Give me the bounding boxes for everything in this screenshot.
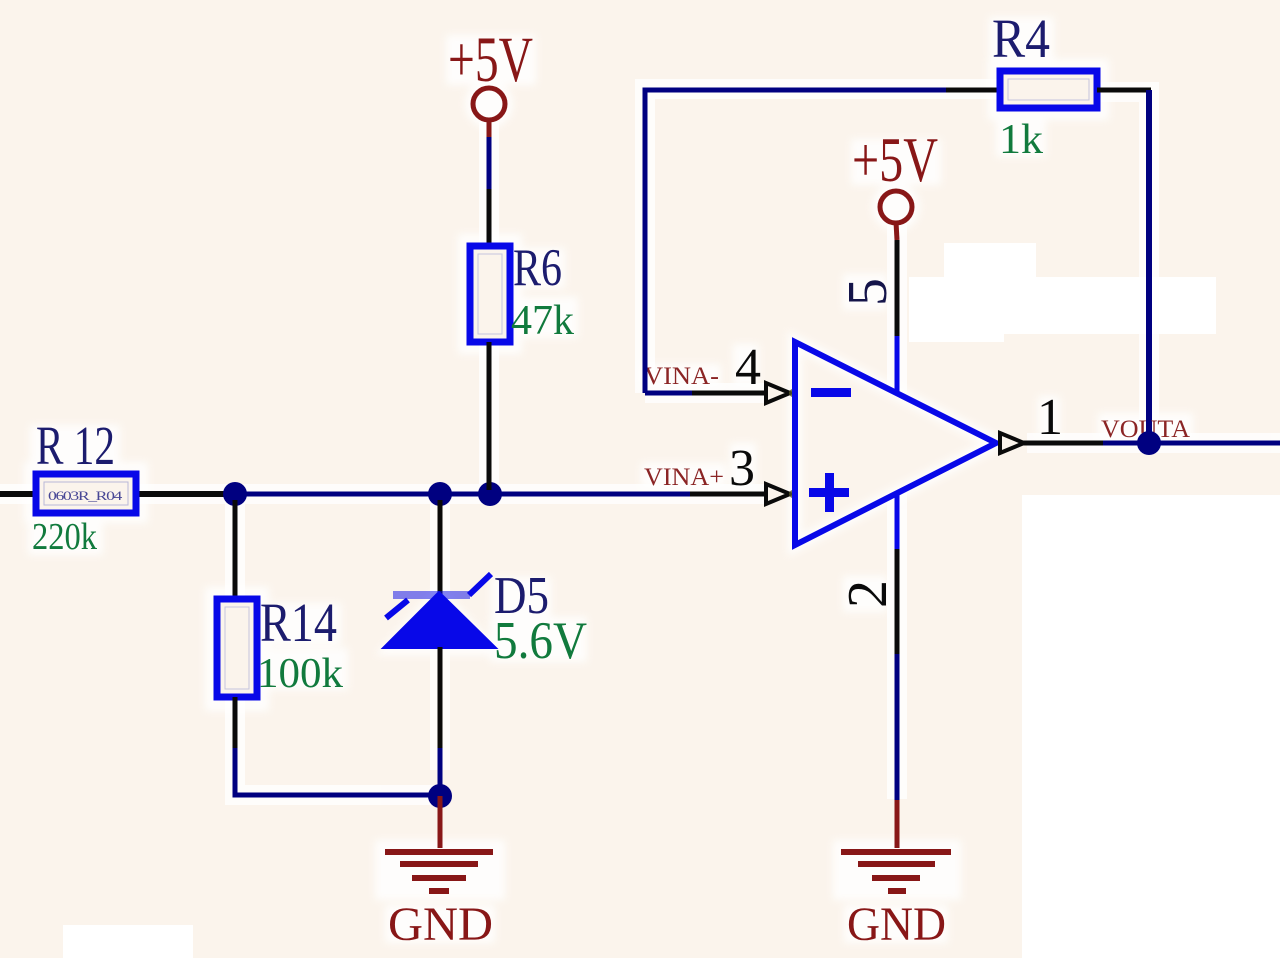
svg-text:GND: GND <box>847 898 946 951</box>
svg-text:R 12: R 12 <box>36 415 115 476</box>
pin 4 input arrowhead <box>766 383 790 403</box>
wire: down to R14 <box>233 500 238 597</box>
svg-text:47k: 47k <box>511 298 574 344</box>
wire: +5V to R6 (navy) <box>487 137 492 189</box>
ground symbol right <box>841 852 951 891</box>
white-out patch bottom left <box>63 925 193 958</box>
resistor R12 <box>36 474 136 513</box>
svg-text:VINA+: VINA+ <box>644 464 724 491</box>
pin 5 power line: black wire from +5V, blue inside symbol <box>895 240 900 336</box>
power stub (right) <box>896 222 897 240</box>
ground stub right <box>895 800 900 848</box>
wire: feedback left vertical (navy) <box>645 90 946 393</box>
power stub (left) <box>487 119 492 137</box>
pin: R6 bottom (black) <box>487 342 492 400</box>
wire: R6 bottom to node <box>487 400 492 490</box>
pin: R4 right (black) <box>1097 88 1151 93</box>
wire: D5 anode down from node <box>438 500 443 600</box>
svg-text:1: 1 <box>1037 389 1063 446</box>
svg-text:+5V: +5V <box>448 24 533 96</box>
junction node at R6 tap <box>478 482 502 506</box>
svg-text:+5V: +5V <box>852 125 938 195</box>
svg-text:2: 2 <box>837 580 899 608</box>
wire: input net from left edge to R12 <box>0 491 240 497</box>
pin 2 line: blue inside symbol, black outside, navy wire to ground <box>895 493 900 549</box>
svg-text:VINA-: VINA- <box>644 363 719 390</box>
pin 3 line (black) <box>690 492 768 497</box>
svg-text:R14: R14 <box>260 592 337 653</box>
junction node at D5 tap <box>428 482 452 506</box>
power +5V (right) port circle <box>880 191 912 223</box>
svg-text:0603R_R04: 0603R_R04 <box>48 488 123 503</box>
wire halo underlays <box>0 89 1280 799</box>
white-out patch near op-amp top <box>909 243 1216 342</box>
ground stub left <box>438 796 443 848</box>
svg-text:R4: R4 <box>992 8 1050 69</box>
op-amp plus sign <box>809 473 849 512</box>
white-out patch bottom right <box>1022 495 1280 958</box>
resistor R6 <box>470 246 510 342</box>
svg-text:4: 4 <box>735 339 761 396</box>
resistor R14 <box>217 599 257 697</box>
wire: R14 bottom to ground junction (navy) <box>235 748 440 795</box>
pin 4 line (navy then black) <box>645 391 692 396</box>
svg-text:GND: GND <box>388 898 493 951</box>
svg-text:5.6V: 5.6V <box>494 612 587 670</box>
pin 1 output arrowhead <box>1000 433 1024 453</box>
svg-text:220k: 220k <box>32 516 97 558</box>
junction node at ground tie <box>428 784 452 808</box>
pin 3 input arrowhead <box>766 484 790 504</box>
wire: output (black then navy to right edge) <box>1028 441 1103 446</box>
pin: R6 top (black) <box>487 189 492 245</box>
wire: R12 to non-inverting node (navy) <box>238 492 690 497</box>
zener diode D5 <box>383 574 496 648</box>
svg-text:100k: 100k <box>257 651 343 697</box>
wire: R14 bottom (black pin) <box>233 697 238 748</box>
svg-text:R6: R6 <box>513 239 562 297</box>
svg-text:3: 3 <box>729 440 755 497</box>
junction node at output/feedback <box>1137 431 1161 455</box>
op-amp U1 triangle <box>795 342 996 545</box>
power +5V (left) port circle <box>473 88 505 120</box>
svg-text:5: 5 <box>837 278 899 306</box>
wire: feedback top into R4 (black pin) <box>946 88 1001 93</box>
pin 1 output line <box>1000 441 1030 446</box>
junction node at R14 tap <box>223 482 247 506</box>
wire: D5 cathode down to ground junction <box>438 647 443 748</box>
op-amp minus sign <box>811 388 851 397</box>
svg-text:1k: 1k <box>999 117 1043 163</box>
pin end dot (pin 3) <box>789 490 797 498</box>
wire: R4 right down to output (navy) <box>1146 90 1152 443</box>
pin end dot (pin 4) <box>789 389 797 397</box>
ground symbol left <box>385 852 493 891</box>
resistor R4 <box>1000 71 1097 108</box>
